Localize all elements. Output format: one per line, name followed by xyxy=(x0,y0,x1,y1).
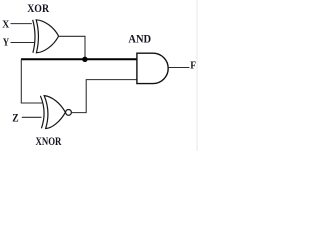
xnor-gate U2 body xyxy=(44,96,65,129)
and-gate U3 body xyxy=(137,53,168,83)
xnor-gate U2 output bubble xyxy=(66,110,72,116)
wire XOR output to junction xyxy=(59,36,85,57)
xnor-gate U2 input arc xyxy=(40,96,44,129)
svg-text:XNOR: XNOR xyxy=(36,135,62,148)
svg-text:XOR: XOR xyxy=(27,3,49,15)
wire Y input xyxy=(11,42,35,44)
svg-text:Y: Y xyxy=(3,37,10,48)
wire X input xyxy=(11,23,32,25)
xor-gate U1 body xyxy=(36,20,58,53)
scan edge artifact xyxy=(196,0,197,151)
wire XNOR output to AND bottom input xyxy=(71,80,136,113)
junction dot xyxy=(82,57,87,62)
wire left branch down to XNOR top input xyxy=(21,59,42,103)
wire AND output F xyxy=(168,67,189,69)
svg-text:F: F xyxy=(190,61,196,72)
wire Z input xyxy=(22,116,42,118)
svg-text:AND: AND xyxy=(128,33,151,45)
wire bus XOR net to AND top input (thick) xyxy=(21,58,137,60)
svg-text:X: X xyxy=(2,19,10,30)
svg-text:Z: Z xyxy=(12,112,19,124)
xor-gate U1 input arc xyxy=(33,20,35,53)
